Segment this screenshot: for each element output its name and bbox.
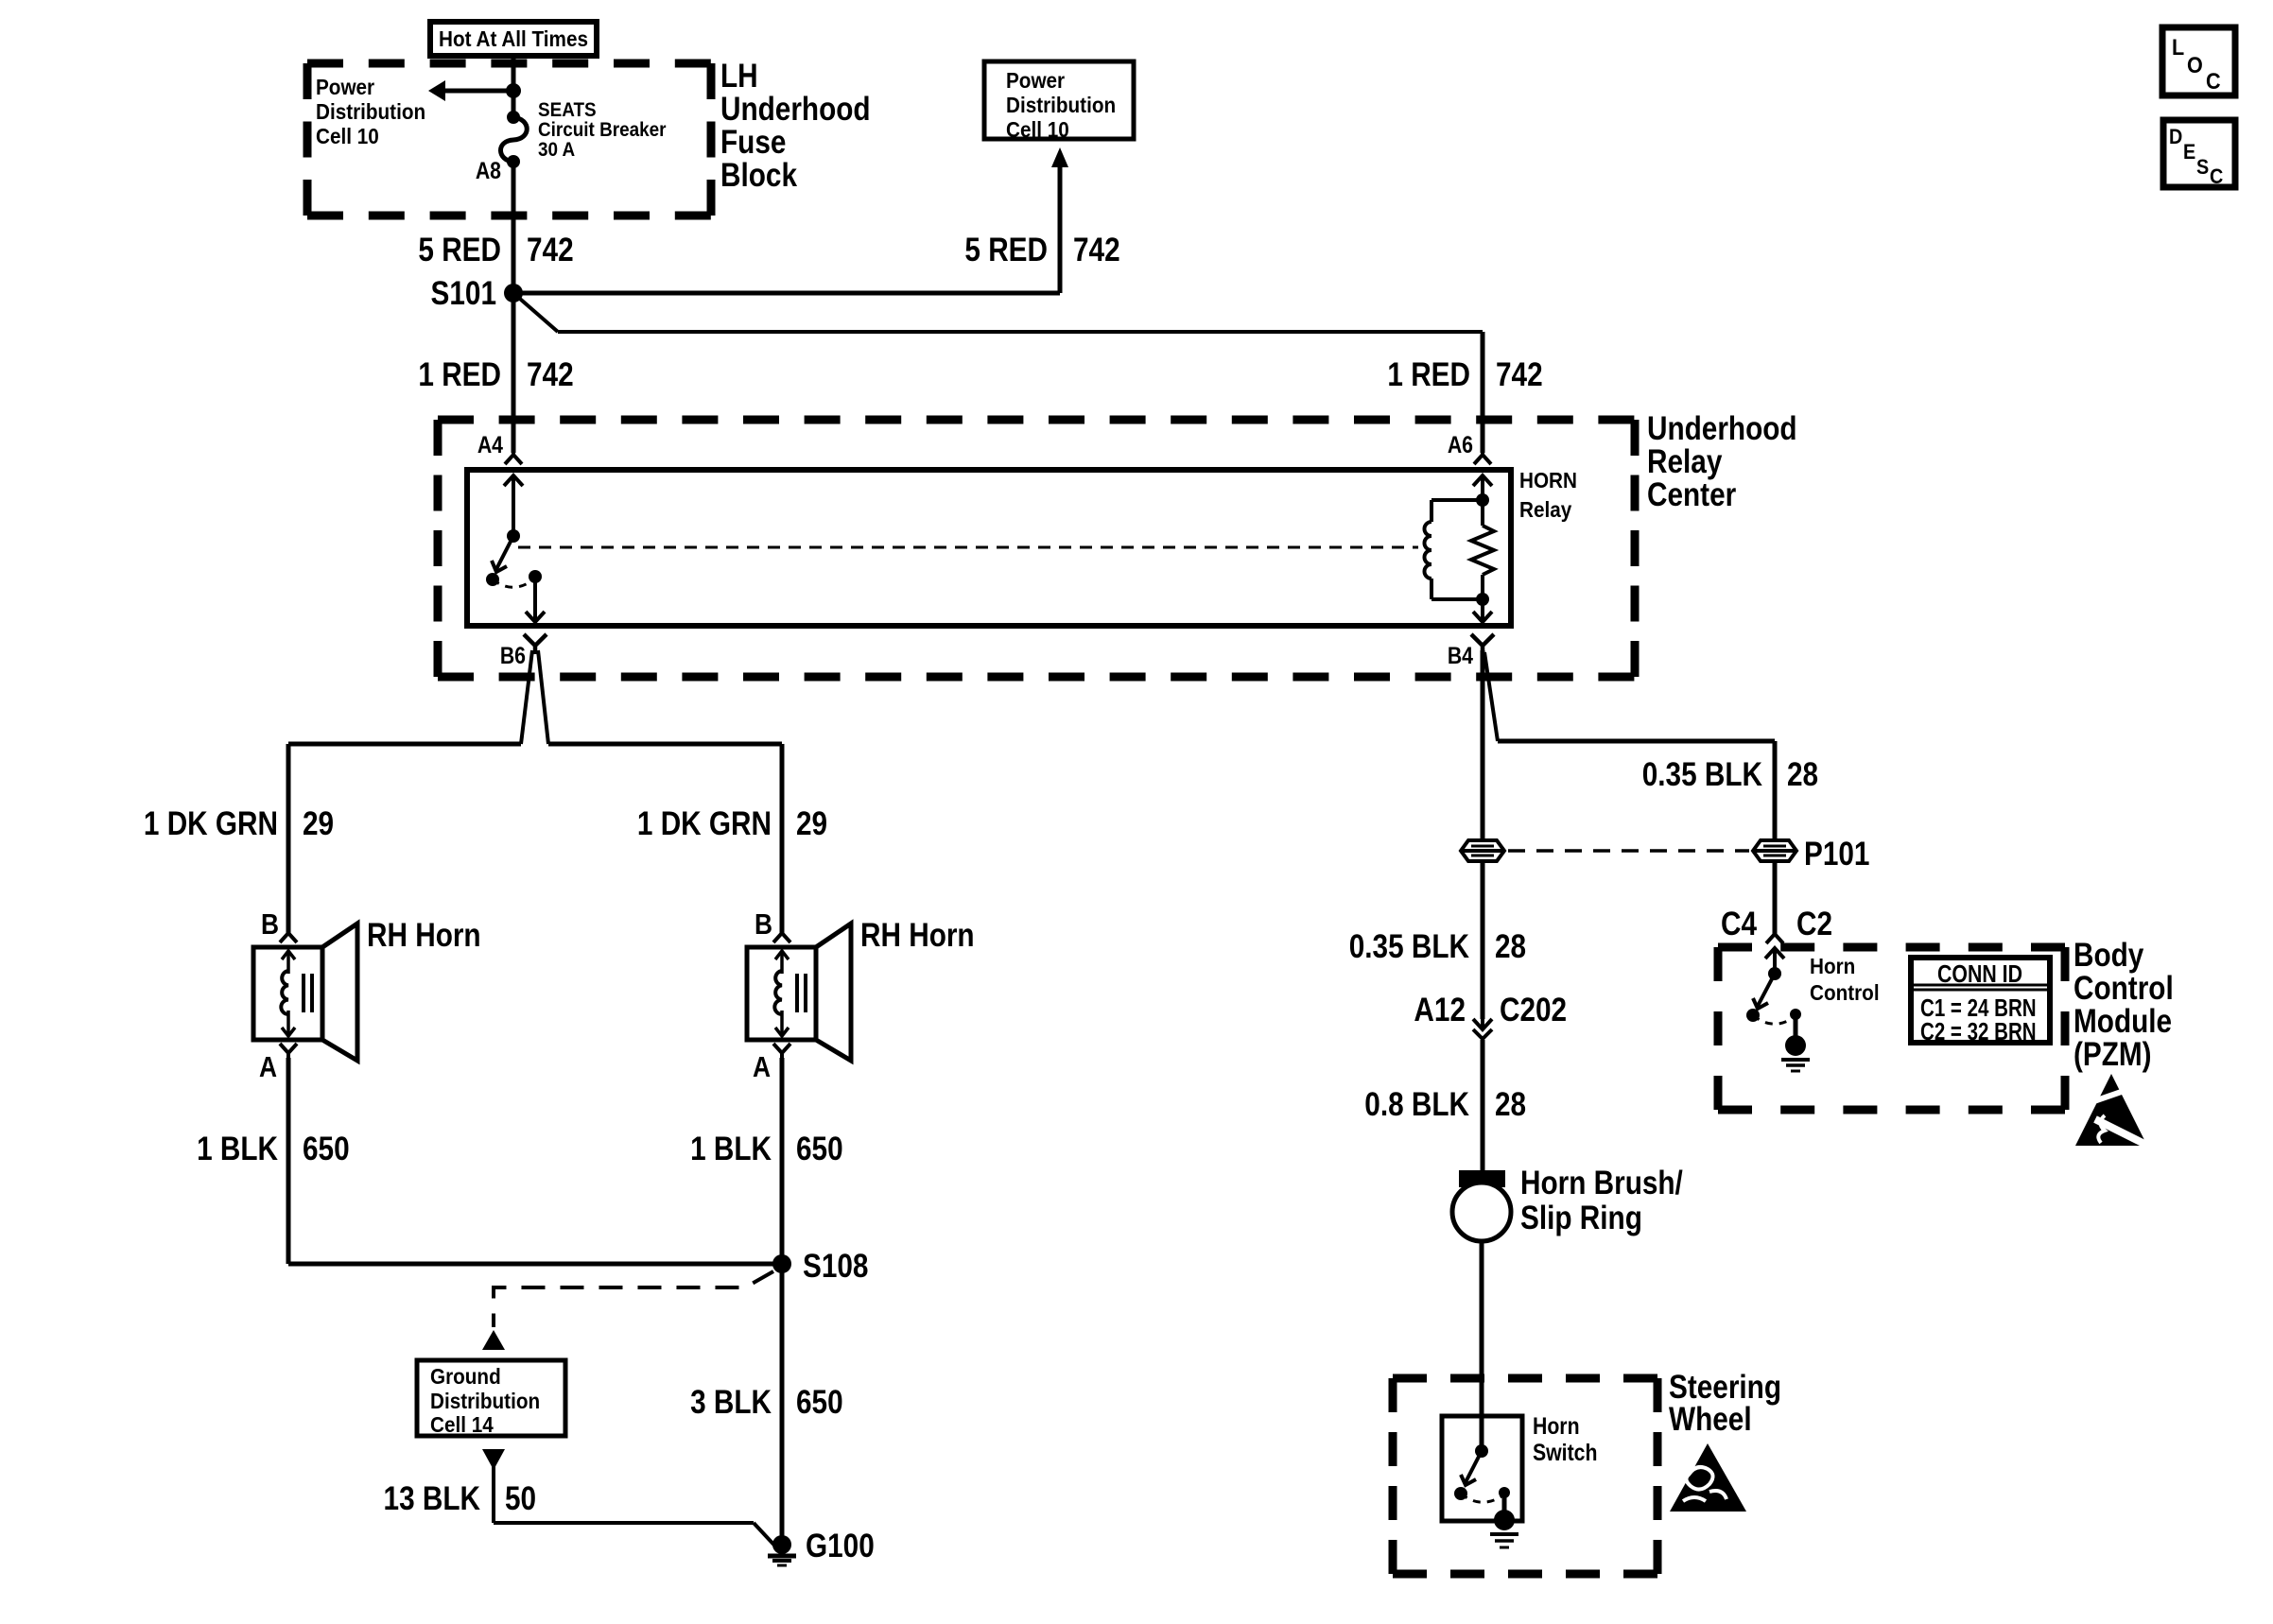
svg-text:Steering: Steering — [1669, 1369, 1781, 1406]
label Body Control Module (PZM) — [2073, 937, 2174, 1073]
wire main feed from Hot At All Times — [512, 56, 516, 117]
svg-text:C: C — [2210, 165, 2223, 188]
svg-text:29: 29 — [303, 805, 334, 842]
svg-text:Control: Control — [1810, 980, 1880, 1005]
svg-text:A: A — [753, 1051, 771, 1083]
svg-text:Cell 10: Cell 10 — [1006, 117, 1069, 142]
label 13 BLK 50 — [384, 1480, 537, 1517]
svg-text:B: B — [261, 908, 279, 941]
svg-text:Ground: Ground — [430, 1364, 501, 1389]
svg-text:1 DK GRN: 1 DK GRN — [144, 805, 278, 842]
wire C202 to Horn Brush — [1481, 1040, 1485, 1177]
svg-text:SEATS: SEATS — [538, 99, 597, 121]
svg-text:742: 742 — [1496, 356, 1543, 393]
svg-text:1 RED: 1 RED — [1387, 356, 1470, 393]
svg-text:Horn: Horn — [1810, 954, 1855, 978]
node splice S108 — [772, 1254, 791, 1273]
wire relay internal dashed link — [518, 546, 1418, 549]
horn RH Horn (right) — [747, 924, 851, 1061]
table CONN ID — [1911, 958, 2050, 1045]
svg-text:A6: A6 — [1448, 431, 1473, 458]
pin B6 connector — [500, 634, 547, 668]
ground G100 — [768, 1528, 875, 1565]
svg-text:Circuit Breaker: Circuit Breaker — [538, 119, 667, 141]
svg-text:A12: A12 — [1414, 992, 1466, 1028]
svg-text:B4: B4 — [1448, 642, 1473, 668]
svg-text:L: L — [2172, 34, 2184, 60]
wire Horn Brush to Horn Switch — [1480, 1241, 1484, 1451]
node Steering Wheel dashed box — [1393, 1378, 1657, 1574]
svg-text:Power: Power — [316, 75, 375, 99]
svg-text:B: B — [755, 908, 772, 941]
svg-text:1 DK GRN: 1 DK GRN — [637, 805, 772, 842]
wire dashed branch S108 to Ground Distribution — [482, 1271, 773, 1350]
svg-text:CONN ID: CONN ID — [1937, 960, 2022, 989]
node Power Distribution Cell 10 box (right) — [984, 61, 1134, 142]
svg-text:A8: A8 — [476, 157, 501, 183]
svg-text:Control: Control — [2073, 970, 2174, 1007]
pin B connector (right horn) — [755, 908, 790, 942]
svg-text:1 BLK: 1 BLK — [197, 1131, 278, 1167]
pin B connector (left horn) — [261, 908, 297, 942]
svg-text:3 BLK: 3 BLK — [690, 1384, 772, 1421]
icon SRS warning triangle — [1670, 1443, 1746, 1512]
label 0.35 BLK 28 (middle) — [1349, 928, 1526, 965]
svg-text:Body: Body — [2073, 937, 2143, 974]
pin A connector (right horn) — [753, 1044, 790, 1084]
wire S108 to G100 — [780, 1264, 785, 1552]
label 1 BLK 650 (right) — [690, 1131, 843, 1167]
svg-text:A4: A4 — [477, 431, 503, 458]
svg-text:C: C — [2206, 68, 2221, 94]
wire Ground Distribution to G100 — [482, 1449, 779, 1550]
label Horn Switch — [1533, 1412, 1597, 1465]
connector P101 grommet (right) — [1753, 840, 1796, 861]
label LH Underhood Fuse Block — [720, 58, 871, 194]
svg-text:0.35 BLK: 0.35 BLK — [1642, 756, 1763, 793]
svg-text:1 RED: 1 RED — [418, 356, 501, 393]
label 1 RED 742 (right) — [1387, 356, 1542, 393]
label Underhood Relay Center — [1647, 410, 1797, 513]
label 0.35 BLK 28 (upper right) — [1642, 756, 1818, 793]
pin A6 connector — [1448, 431, 1491, 464]
label 1 DK GRN 29 (right) — [637, 805, 827, 842]
svg-text:28: 28 — [1495, 928, 1526, 965]
relay switch contacts (left side) — [486, 475, 545, 622]
svg-text:D: D — [2169, 126, 2182, 148]
svg-text:742: 742 — [527, 232, 574, 268]
svg-text:C202: C202 — [1500, 992, 1567, 1028]
wire B6 split to both horns — [288, 650, 782, 936]
wire S101 to Power Distribution arrow — [513, 147, 1068, 293]
svg-text:Switch: Switch — [1533, 1439, 1597, 1465]
svg-text:RH Horn: RH Horn — [860, 917, 975, 954]
svg-text:Underhood: Underhood — [720, 91, 871, 128]
svg-text:Slip Ring: Slip Ring — [1520, 1200, 1642, 1236]
pin A4 connector — [477, 431, 522, 464]
wire B4 split — [1483, 650, 1775, 840]
node Ground Distribution Cell 14 box — [417, 1360, 565, 1437]
svg-text:13 BLK: 13 BLK — [384, 1480, 481, 1517]
pin C4 / C2 connector — [1721, 906, 1832, 943]
label Horn Control — [1810, 954, 1880, 1005]
svg-text:Underhood: Underhood — [1647, 410, 1797, 447]
svg-text:B6: B6 — [500, 642, 526, 668]
node splice S101 — [504, 284, 523, 302]
svg-text:28: 28 — [1787, 756, 1818, 793]
svg-text:Horn: Horn — [1533, 1412, 1580, 1439]
label 3 BLK 650 — [690, 1384, 843, 1421]
svg-text:Hot At All Times: Hot At All Times — [439, 26, 588, 51]
svg-text:742: 742 — [527, 356, 574, 393]
device Horn Brush / Slip Ring — [1452, 1165, 1683, 1241]
svg-text:1 BLK: 1 BLK — [690, 1131, 772, 1167]
svg-text:G100: G100 — [806, 1528, 875, 1564]
circuit breaker SEATS 30 A — [500, 111, 527, 168]
svg-text:HORN: HORN — [1519, 468, 1577, 492]
svg-text:LH: LH — [720, 58, 758, 95]
svg-text:0.8 BLK: 0.8 BLK — [1364, 1086, 1469, 1123]
label HORN Relay — [1519, 468, 1577, 522]
svg-text:S108: S108 — [803, 1248, 868, 1285]
label SEATS Circuit Breaker 30 A — [538, 99, 667, 161]
svg-text:Cell 10: Cell 10 — [316, 124, 379, 148]
svg-text:O: O — [2187, 52, 2203, 78]
svg-text:S101: S101 — [431, 275, 496, 312]
node Underhood Relay Center dashed box — [438, 420, 1635, 677]
svg-text:Distribution: Distribution — [430, 1389, 540, 1413]
switch Horn Switch contacts — [1454, 1444, 1518, 1547]
svg-text:29: 29 — [796, 805, 827, 842]
svg-text:650: 650 — [303, 1131, 350, 1167]
svg-text:E: E — [2183, 141, 2195, 164]
svg-text:Fuse: Fuse — [720, 124, 786, 161]
svg-text:(PZM): (PZM) — [2073, 1036, 2152, 1073]
wire right horn down to S108 — [780, 1058, 785, 1264]
svg-text:C2: C2 — [1796, 906, 1832, 942]
svg-text:A: A — [259, 1051, 277, 1083]
wire arrow to Power Distribution — [428, 80, 513, 101]
svg-text:Distribution: Distribution — [1006, 93, 1116, 117]
svg-text:Cell 14: Cell 14 — [430, 1412, 495, 1437]
node junction dot — [506, 83, 521, 98]
svg-text:650: 650 — [796, 1131, 843, 1167]
wire P101 to BCM C2 — [1773, 861, 1778, 936]
svg-text:742: 742 — [1073, 232, 1120, 268]
label 5 RED 742 (left) — [418, 232, 573, 268]
LH Underhood Fuse Block dashed box — [307, 63, 711, 216]
svg-text:S: S — [2196, 156, 2209, 179]
wire breaker to S101 — [512, 162, 516, 293]
svg-text:50: 50 — [505, 1480, 536, 1517]
relay HORN Relay box — [467, 470, 1511, 626]
pin B4 connector — [1448, 634, 1494, 668]
node LOC reference box — [2162, 27, 2235, 95]
svg-text:Horn Brush/: Horn Brush/ — [1520, 1165, 1683, 1201]
label Power Distribution Cell 10 (left) — [316, 75, 425, 148]
wire left horn to S108 — [288, 1058, 782, 1264]
label 5 RED 742 (right) — [964, 232, 1119, 268]
svg-text:Relay: Relay — [1519, 497, 1572, 522]
label 1 RED 742 (left) — [418, 356, 573, 393]
switch Horn Switch box — [1442, 1416, 1522, 1521]
label Steering Wheel — [1669, 1369, 1781, 1438]
label 1 DK GRN 29 (left) — [144, 805, 334, 842]
node Hot At All Times box — [430, 22, 597, 56]
wire left grommet down to C202 — [1481, 861, 1485, 1019]
switch Horn Control — [1746, 948, 1810, 1071]
relay coil and resistor (right side) — [1425, 475, 1494, 622]
horn RH Horn (left) — [253, 924, 357, 1061]
svg-text:Relay: Relay — [1647, 443, 1722, 480]
connector A12 C202 — [1414, 992, 1567, 1039]
connector P101 grommet (left) — [1461, 840, 1504, 861]
svg-text:650: 650 — [796, 1384, 843, 1421]
svg-text:Module: Module — [2073, 1003, 2172, 1040]
svg-text:Power: Power — [1006, 68, 1066, 93]
svg-text:0.35 BLK: 0.35 BLK — [1349, 928, 1470, 965]
node Body Control Module dashed box — [1718, 947, 2065, 1110]
svg-text:RH Horn: RH Horn — [367, 917, 481, 954]
svg-text:30 A: 30 A — [538, 139, 575, 161]
svg-text:P101: P101 — [1804, 836, 1869, 872]
wire S101 down to A4 — [512, 293, 516, 453]
wire S101 diagonal branch to A6 — [513, 293, 1483, 453]
label 0.8 BLK 28 — [1364, 1086, 1526, 1123]
wire dashed P101 link — [1508, 849, 1749, 853]
svg-text:28: 28 — [1495, 1086, 1526, 1123]
svg-text:C2 = 32 BRN: C2 = 32 BRN — [1920, 1018, 2037, 1045]
svg-text:5 RED: 5 RED — [418, 232, 501, 268]
svg-text:Center: Center — [1647, 476, 1737, 513]
svg-text:Block: Block — [720, 157, 798, 194]
svg-text:C4: C4 — [1721, 906, 1757, 942]
label 1 BLK 650 (left) — [197, 1131, 350, 1167]
pin A connector (left horn) — [259, 1044, 297, 1084]
svg-text:5 RED: 5 RED — [964, 232, 1048, 268]
node DESC reference box — [2163, 120, 2235, 188]
svg-text:Distribution: Distribution — [316, 99, 425, 124]
icon ESD warning triangle — [2075, 1074, 2148, 1146]
svg-text:Wheel: Wheel — [1669, 1401, 1752, 1438]
